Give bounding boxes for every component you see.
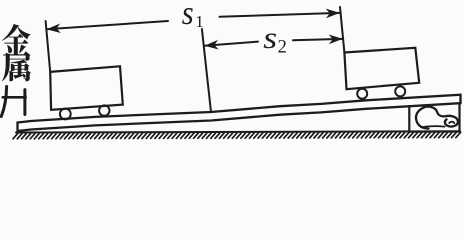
svg-text:1: 1 [195,12,204,31]
svg-text:s: s [182,0,194,31]
svg-text:2: 2 [278,38,287,58]
svg-text:s: s [263,21,277,55]
